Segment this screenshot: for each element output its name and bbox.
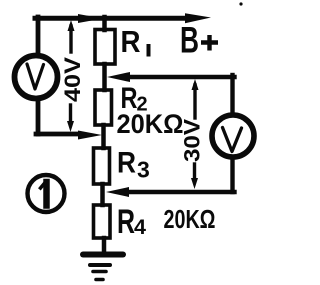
30V dimension up arrowhead	[192, 79, 199, 90]
wire bus below R4 to ground	[102, 238, 107, 252]
voltmeter V1 left	[15, 56, 58, 99]
voltmeter V2 right	[212, 115, 254, 157]
ink speck top right	[239, 2, 242, 5]
svg-text:4: 4	[134, 215, 146, 239]
circled figure number 1	[28, 175, 65, 212]
wire bus between R1 and R2	[102, 64, 107, 90]
wire right vertical below V2	[230, 158, 234, 192]
40V dimension lower shaft	[69, 105, 72, 124]
resistor R3	[94, 148, 110, 184]
wire left horizontal into node R2-R3	[36, 132, 80, 137]
svg-text:40V: 40V	[60, 57, 85, 102]
arrow into node R1-R2 pointing left	[107, 72, 130, 82]
svg-text:20KΩ: 20KΩ	[117, 109, 184, 139]
digit 1 inside circle	[43, 182, 50, 206]
V glyph of V1	[27, 64, 44, 89]
30V dimension down arrowhead	[191, 178, 198, 189]
wire bus top segment above R1	[102, 17, 107, 30]
resistor R4	[94, 205, 111, 238]
ground bar 2	[90, 263, 110, 267]
svg-text:30V: 30V	[180, 119, 205, 162]
plus sign of B+	[201, 35, 218, 51]
40V dimension up arrowhead	[68, 20, 75, 31]
svg-text:B: B	[180, 20, 199, 61]
resistor R1	[95, 30, 115, 65]
wire bus between R2 and R3	[101, 125, 106, 148]
arrow into node R2-R3 pointing right	[78, 131, 102, 140]
arrow B+ at right end of top wire	[185, 13, 211, 23]
wire left vertical from top wire to voltmeter V1	[36, 17, 41, 53]
V glyph of V2	[223, 128, 242, 152]
wire right horizontal from node R1-R2	[126, 75, 235, 79]
wire right bottom horizontal into node R3-R4	[125, 190, 235, 194]
40V dimension down arrowhead	[67, 121, 74, 132]
wire top horizontal B+ feed	[35, 16, 192, 21]
wire right vertical to voltmeter V2	[230, 75, 234, 112]
wire bus between R3 and R4	[100, 184, 105, 205]
svg-text:20KΩ: 20KΩ	[164, 204, 216, 234]
svg-text:R: R	[117, 203, 135, 241]
40V dimension upper shaft	[69, 26, 72, 52]
ground bar 3	[93, 270, 106, 274]
svg-text:R: R	[117, 147, 136, 180]
30V dimension lower shaft	[193, 164, 196, 180]
resistor R2	[95, 90, 112, 125]
arrow on top wire pointing right into node above R1	[78, 14, 103, 23]
ground bar 1	[83, 252, 123, 258]
svg-text:3: 3	[137, 157, 150, 183]
30V dimension upper shaft	[193, 85, 196, 118]
ground bar 4	[96, 278, 103, 282]
wire left vertical below V1	[36, 100, 41, 134]
svg-text:R: R	[121, 24, 141, 59]
arrow into node R3-R4 pointing left	[106, 187, 129, 197]
